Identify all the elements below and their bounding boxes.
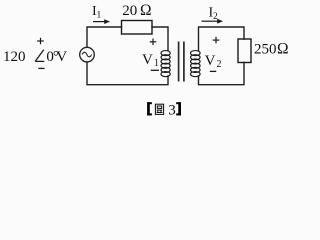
svg-text:20: 20 — [122, 3, 137, 19]
svg-text:1: 1 — [97, 11, 102, 21]
svg-text:V: V — [205, 53, 216, 69]
V2 plus — [213, 37, 220, 44]
caption left lenticular bracket — [147, 102, 152, 115]
svg-text:Ω: Ω — [277, 40, 289, 57]
current I2 arrow — [202, 20, 218, 22]
source polarity plus — [37, 38, 44, 45]
caption CJK character tu (figure) — [155, 104, 163, 114]
resistor R2 250ohm box — [238, 39, 251, 63]
svg-text:250: 250 — [254, 41, 277, 57]
wire: source bottom to primary bottom — [87, 62, 168, 85]
wire top-left: source to resistor R1 — [87, 27, 122, 47]
wire: secondary top to resistor R2 — [199, 27, 245, 51]
AC source sine wave — [82, 52, 91, 57]
current I1 arrow — [93, 21, 105, 23]
transformer secondary coil — [191, 51, 201, 77]
wire: R2 bottom to secondary bottom — [199, 63, 245, 85]
svg-text:3: 3 — [168, 102, 176, 118]
V2 minus — [210, 70, 216, 72]
svg-text:2: 2 — [217, 59, 222, 70]
source polarity minus — [38, 67, 44, 69]
transformer core — [178, 42, 180, 82]
svg-text:V: V — [142, 52, 153, 68]
svg-text:Ω: Ω — [140, 2, 152, 19]
V1 plus — [150, 39, 157, 46]
svg-text:120: 120 — [3, 49, 26, 65]
transformer primary coil — [161, 51, 170, 77]
caption right lenticular bracket — [176, 102, 181, 115]
angle symbol — [35, 50, 44, 62]
AC source circle — [80, 47, 95, 62]
svg-text:V: V — [56, 49, 67, 65]
svg-text:1: 1 — [154, 58, 159, 69]
V1 minus — [151, 69, 159, 71]
resistor R1 20ohm box — [122, 21, 153, 35]
wire: R1 to transformer primary top — [152, 27, 168, 51]
